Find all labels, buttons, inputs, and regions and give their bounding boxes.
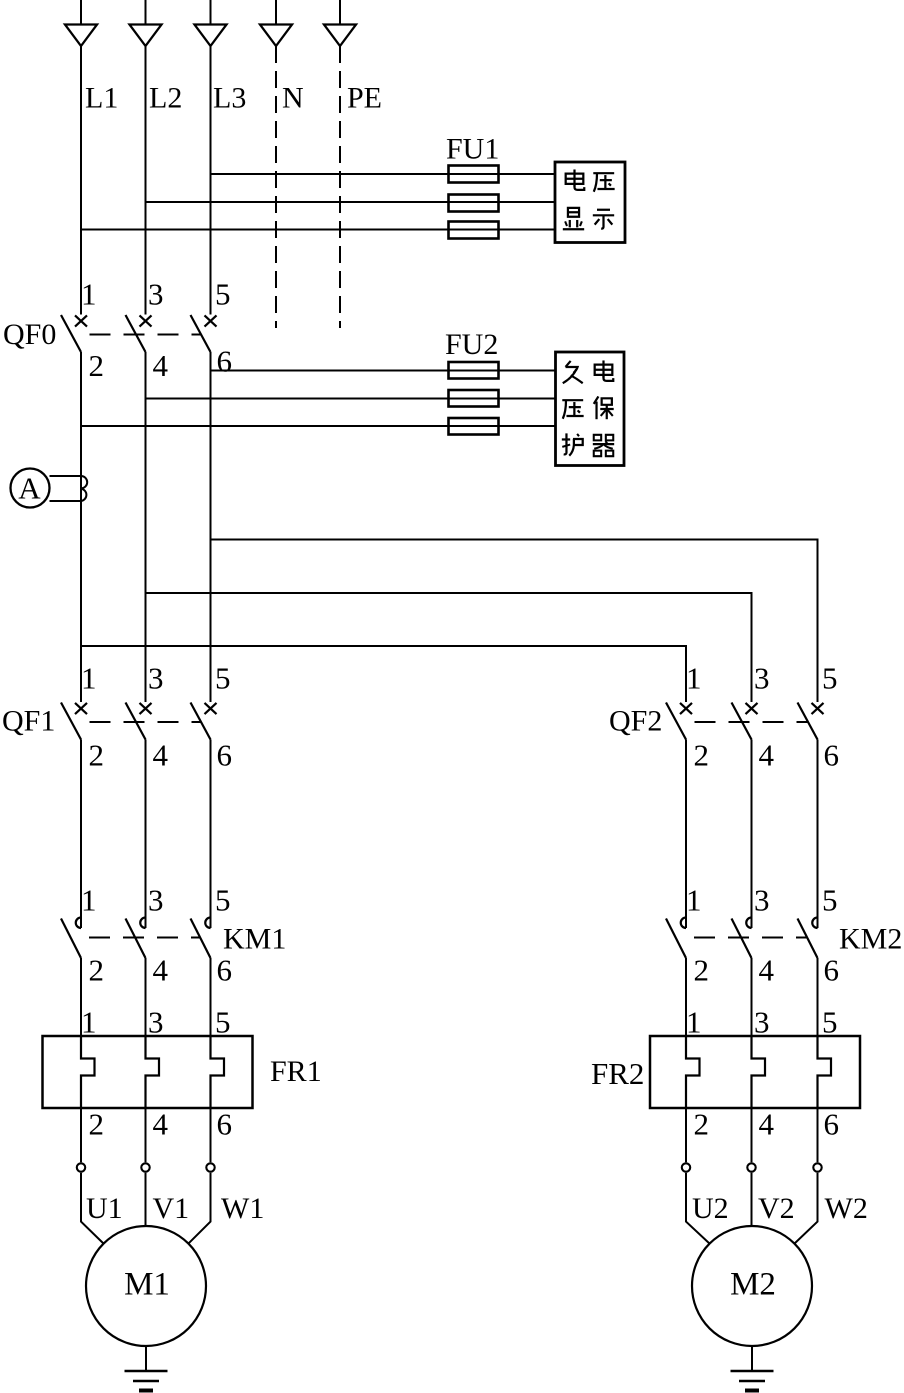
svg-text:KM2: KM2 — [839, 923, 902, 956]
ammeter A — [11, 469, 50, 508]
pin number 2 — [694, 1107, 710, 1142]
thermal element FR1 pole 3 — [211, 1036, 225, 1108]
label L3 — [213, 82, 246, 115]
breaker QF2 — [666, 703, 824, 740]
pin number 5 — [215, 1005, 231, 1040]
contactor blade — [732, 919, 752, 959]
contactor KM2 — [666, 918, 818, 959]
pin number 3 — [754, 661, 770, 696]
svg-text:5: 5 — [822, 1005, 838, 1040]
svg-text:FR1: FR1 — [270, 1055, 322, 1088]
svg-text:1: 1 — [686, 661, 702, 696]
svg-text:3: 3 — [148, 277, 164, 312]
power terminal arrow L2 — [130, 0, 162, 46]
wire M1 lead 1 upper — [80, 1108, 82, 1162]
motor M2 — [692, 1226, 812, 1346]
svg-text:1: 1 — [81, 1005, 97, 1040]
contactor blade — [798, 919, 818, 959]
wire to fuse FU2-1 — [211, 370, 556, 372]
wire KM1 output vertical — [80, 958, 82, 1036]
breaker blade — [798, 703, 818, 740]
terminal circle V2 — [747, 1163, 755, 1171]
svg-text:3: 3 — [148, 883, 164, 918]
pin number 3 — [148, 883, 164, 918]
contactor blade — [61, 919, 81, 959]
svg-text:W1: W1 — [221, 1192, 264, 1225]
fuse FU1 element 3 — [449, 222, 499, 239]
wire to fuse FU1-1 — [211, 173, 556, 175]
thermal element FR2 pole 2 — [752, 1036, 766, 1108]
svg-text:L2: L2 — [149, 82, 182, 115]
pin number 6 — [824, 953, 840, 988]
contactor KM2 label — [839, 923, 902, 956]
svg-text:2: 2 — [89, 738, 105, 773]
pin number 1 — [686, 661, 702, 696]
wire QF0 output vertical — [80, 352, 82, 702]
ground symbol under M2 — [731, 1371, 774, 1391]
svg-text:W2: W2 — [825, 1192, 868, 1225]
thermal relay FR1 label — [270, 1055, 322, 1088]
wire KM2 output vertical — [817, 958, 819, 1036]
wire M2 lead 3 upper — [817, 1108, 819, 1162]
wire QF2 output vertical — [751, 740, 753, 929]
wire QF1 output vertical — [80, 740, 82, 929]
terminal circle U1 — [77, 1163, 85, 1171]
fuse FU2 element 1 — [449, 362, 499, 379]
wire QF0 output vertical — [210, 352, 212, 702]
svg-text:5: 5 — [215, 661, 231, 696]
wire KM1 output vertical — [210, 958, 212, 1036]
svg-text:2: 2 — [694, 738, 710, 773]
wire L2 vertical (arrow to QF0) — [145, 46, 147, 315]
box voltage display (dian ya xian shi) — [555, 162, 625, 243]
svg-text:1: 1 — [81, 661, 97, 696]
svg-text:V2: V2 — [758, 1192, 795, 1225]
breaker blade — [191, 703, 211, 740]
svg-text:1: 1 — [686, 1005, 702, 1040]
wire QF2 output vertical — [817, 740, 819, 929]
wire KM1 output vertical — [145, 958, 147, 1036]
breaker pole contact x mark pin 1 — [680, 703, 692, 714]
pin number 2 — [89, 1107, 105, 1142]
pin number 6 — [824, 738, 840, 773]
label V1 — [153, 1192, 190, 1225]
svg-text:6: 6 — [217, 344, 233, 379]
pin number 1 — [686, 1005, 702, 1040]
pin number 4 — [153, 738, 169, 773]
svg-text:L3: L3 — [213, 82, 246, 115]
breaker pole contact x mark pin 5 — [205, 315, 217, 326]
box undervoltage protector (qian dian ya bao hu qi) — [556, 352, 625, 466]
breaker blade — [732, 703, 752, 740]
wire L3 vertical (arrow to QF0) — [210, 46, 212, 315]
contactor fixed contact arc pin 3 — [746, 918, 751, 929]
wire W2 lead to motor — [794, 1173, 817, 1244]
pin number 5 — [215, 883, 231, 918]
label V2 — [758, 1192, 795, 1225]
svg-text:6: 6 — [217, 953, 233, 988]
wire PE dashed vertical — [339, 46, 341, 328]
svg-text:FR2: FR2 — [591, 1056, 644, 1091]
svg-text:QF1: QF1 — [2, 705, 55, 738]
terminal circle U2 — [682, 1163, 690, 1171]
breaker blade — [61, 315, 81, 352]
breaker blade — [126, 703, 146, 740]
breaker pole contact x mark pin 3 — [140, 315, 152, 326]
svg-text:6: 6 — [824, 1107, 840, 1142]
svg-text:2: 2 — [89, 348, 105, 383]
svg-text:6: 6 — [824, 953, 840, 988]
pin number 6 — [824, 1107, 840, 1142]
pin number 3 — [148, 277, 164, 312]
svg-text:4: 4 — [153, 738, 169, 773]
svg-text:1: 1 — [81, 277, 97, 312]
pin number 2 — [89, 348, 105, 383]
label N — [282, 82, 304, 115]
pin number 2 — [694, 953, 710, 988]
wire to fuse FU1-2 — [146, 201, 556, 203]
contactor fixed contact arc pin 1 — [76, 918, 81, 929]
breaker pole contact x mark pin 3 — [140, 703, 152, 714]
pin number 4 — [759, 953, 775, 988]
breaker blade — [61, 703, 81, 740]
wire L1 vertical (arrow to QF0) — [80, 46, 82, 315]
wire U2 lead to motor — [686, 1173, 710, 1244]
svg-text:4: 4 — [759, 738, 775, 773]
fuse FU1 element 1 — [449, 166, 499, 183]
thermal element FR1 pole 2 — [146, 1036, 160, 1108]
pin number 4 — [759, 1107, 775, 1142]
pin number 6 — [217, 344, 233, 379]
pin number 2 — [89, 953, 105, 988]
svg-text:6: 6 — [217, 738, 233, 773]
wire to fuse FU2-2 — [146, 398, 556, 400]
contactor KM1 — [61, 918, 211, 959]
pin number 2 — [89, 738, 105, 773]
contactor fixed contact arc pin 5 — [812, 918, 817, 929]
svg-text:3: 3 — [148, 661, 164, 696]
wire M2 lead 2 upper — [751, 1108, 753, 1162]
svg-text:QF2: QF2 — [609, 705, 662, 738]
svg-text:5: 5 — [822, 883, 838, 918]
svg-text:KM1: KM1 — [223, 923, 286, 956]
pin number 5 — [822, 1005, 838, 1040]
svg-text:5: 5 — [822, 661, 838, 696]
svg-text:4: 4 — [153, 953, 169, 988]
wire M2 lead 1 upper — [685, 1108, 687, 1162]
breaker blade — [191, 315, 211, 352]
svg-text:2: 2 — [89, 953, 105, 988]
label W1 — [221, 1192, 264, 1225]
svg-text:5: 5 — [215, 277, 231, 312]
breaker QF1 — [61, 703, 217, 740]
pin number 3 — [754, 883, 770, 918]
thermal relay FR2 box — [650, 1036, 860, 1108]
label FU2 — [445, 328, 498, 361]
wire ammeter top lead — [50, 475, 82, 477]
svg-text:FU2: FU2 — [445, 328, 498, 361]
pin number 5 — [215, 661, 231, 696]
breaker QF1 label — [2, 705, 55, 738]
pin number 1 — [81, 661, 97, 696]
pin number 5 — [822, 661, 838, 696]
pin number 2 — [694, 738, 710, 773]
ground symbol under M1 — [125, 1371, 168, 1391]
contactor fixed contact arc pin 1 — [681, 918, 686, 929]
wire branch L1 to QF2 pin1 — [81, 646, 686, 702]
svg-text:L1: L1 — [85, 82, 118, 115]
wire U1 lead to motor — [81, 1173, 104, 1244]
svg-text:5: 5 — [215, 1005, 231, 1040]
wire V1 lead to motor — [145, 1173, 147, 1227]
svg-text:2: 2 — [694, 953, 710, 988]
wire QF2 output vertical — [685, 740, 687, 929]
pin number 5 — [822, 883, 838, 918]
pin number 3 — [148, 1005, 164, 1040]
svg-text:FU1: FU1 — [446, 133, 499, 166]
wire branch L3 to QF2 pin5 — [211, 540, 818, 703]
wire ammeter bottom lead — [50, 500, 82, 502]
fuse FU2 element 3 — [449, 418, 499, 435]
power terminal arrow PE — [324, 0, 356, 46]
wire KM2 output vertical — [685, 958, 687, 1036]
contactor fixed contact arc pin 5 — [205, 918, 210, 929]
contactor blade — [126, 919, 146, 959]
breaker QF0 label — [3, 318, 56, 351]
pin number 4 — [153, 1107, 169, 1142]
svg-text:4: 4 — [759, 1107, 775, 1142]
label W2 — [825, 1192, 868, 1225]
svg-text:4: 4 — [153, 348, 169, 383]
wire M1 to ground — [145, 1346, 147, 1371]
svg-text:QF0: QF0 — [3, 318, 56, 351]
wire N dashed vertical — [275, 46, 277, 328]
terminal circle W2 — [813, 1163, 821, 1171]
power terminal arrow N — [260, 0, 292, 46]
contactor linkage dashed — [694, 937, 807, 939]
breaker pole contact x mark pin 1 — [75, 315, 87, 326]
contactor blade — [191, 919, 211, 959]
pin number 4 — [153, 953, 169, 988]
breaker mechanical linkage dashed — [90, 334, 202, 336]
pin number 4 — [153, 348, 169, 383]
thermal element FR2 pole 1 — [686, 1036, 700, 1108]
svg-text:1: 1 — [686, 883, 702, 918]
breaker pole contact x mark pin 5 — [812, 703, 824, 714]
svg-text:3: 3 — [754, 1005, 770, 1040]
fuse FU2 element 2 — [449, 390, 499, 407]
pin number 1 — [686, 883, 702, 918]
power terminal arrow L3 — [195, 0, 227, 46]
label U1 — [86, 1192, 123, 1225]
svg-text:U1: U1 — [86, 1192, 123, 1225]
label U2 — [692, 1192, 729, 1225]
breaker pole contact x mark pin 5 — [205, 703, 217, 714]
svg-text:6: 6 — [824, 738, 840, 773]
power terminal arrow L1 — [65, 0, 97, 46]
wire branch L2 to QF2 pin3 — [146, 593, 752, 702]
pin number 1 — [81, 883, 97, 918]
svg-text:4: 4 — [153, 1107, 169, 1142]
thermal relay FR2 label — [591, 1056, 644, 1091]
thermal relay FR1 box — [43, 1036, 253, 1108]
breaker mechanical linkage dashed — [695, 721, 809, 723]
contactor KM1 label — [223, 923, 286, 956]
breaker pole contact x mark pin 1 — [75, 703, 87, 714]
terminal circle W1 — [206, 1163, 214, 1171]
svg-text:M1: M1 — [124, 1267, 170, 1303]
pin number 3 — [148, 661, 164, 696]
svg-text:6: 6 — [217, 1107, 233, 1142]
wire M1 lead 2 upper — [145, 1108, 147, 1162]
svg-text:2: 2 — [694, 1107, 710, 1142]
label PE — [347, 82, 382, 115]
contactor linkage dashed — [89, 937, 200, 939]
terminal circle V1 — [141, 1163, 149, 1171]
breaker QF2 label — [609, 705, 662, 738]
svg-text:3: 3 — [148, 1005, 164, 1040]
wire to fuse FU2-3 — [81, 425, 556, 427]
svg-text:M2: M2 — [730, 1267, 776, 1303]
thermal element FR2 pole 3 — [818, 1036, 832, 1108]
svg-text:A: A — [18, 471, 41, 506]
breaker mechanical linkage dashed — [90, 721, 202, 723]
label FU1 — [446, 133, 499, 166]
motor M1 — [86, 1226, 206, 1346]
pin number 1 — [81, 1005, 97, 1040]
pin number 1 — [81, 277, 97, 312]
wire QF1 output vertical — [145, 740, 147, 929]
pin number 6 — [217, 953, 233, 988]
label L2 — [149, 82, 182, 115]
pin number 3 — [754, 1005, 770, 1040]
svg-text:5: 5 — [215, 883, 231, 918]
breaker blade — [666, 703, 686, 740]
pin number 6 — [217, 738, 233, 773]
svg-text:4: 4 — [759, 953, 775, 988]
wire QF0 output vertical — [145, 352, 147, 702]
current transformer bumps on L1 — [81, 476, 87, 501]
svg-text:PE: PE — [347, 82, 382, 115]
wire to fuse FU1-3 — [81, 229, 555, 231]
pin number 5 — [215, 277, 231, 312]
pin number 4 — [759, 738, 775, 773]
svg-text:1: 1 — [81, 883, 97, 918]
svg-text:2: 2 — [89, 1107, 105, 1142]
label L1 — [85, 82, 118, 115]
contactor fixed contact arc pin 3 — [140, 918, 145, 929]
wire W1 lead to motor — [188, 1173, 210, 1244]
wire M2 to ground — [751, 1346, 753, 1371]
svg-text:N: N — [282, 82, 304, 115]
wire KM2 output vertical — [751, 958, 753, 1036]
svg-text:V1: V1 — [153, 1192, 190, 1225]
pin number 6 — [217, 1107, 233, 1142]
wire QF1 output vertical — [210, 740, 212, 929]
thermal element FR1 pole 1 — [81, 1036, 95, 1108]
breaker blade — [126, 315, 146, 352]
wire M1 lead 3 upper — [210, 1108, 212, 1162]
svg-text:3: 3 — [754, 661, 770, 696]
svg-text:3: 3 — [754, 883, 770, 918]
fuse FU1 element 2 — [449, 195, 499, 212]
wire V2 lead to motor — [751, 1173, 753, 1227]
breaker pole contact x mark pin 3 — [746, 703, 758, 714]
contactor blade — [666, 919, 686, 959]
svg-text:U2: U2 — [692, 1192, 729, 1225]
breaker QF0 — [61, 315, 217, 352]
